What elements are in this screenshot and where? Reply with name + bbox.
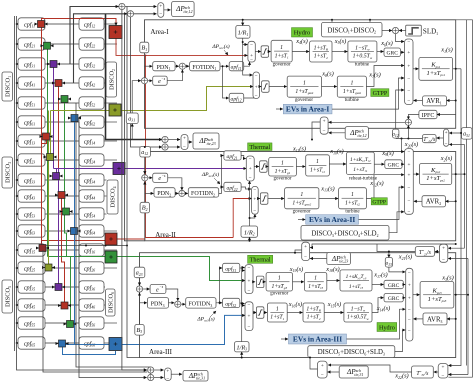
svg-text:governor: governor bbox=[293, 209, 311, 214]
svg-text:1: 1 bbox=[281, 161, 284, 167]
wire gov to hydro comp bbox=[292, 51, 309, 53]
wire row 1 mid bbox=[45, 23, 79, 25]
svg-text:−: − bbox=[249, 175, 252, 181]
wire apf11 to hydro bar bbox=[244, 62, 250, 66]
cpf55 box bbox=[18, 317, 45, 329]
wire ACE2 to delay bbox=[148, 177, 152, 179]
wire hgov3 to comp3 bbox=[287, 312, 302, 314]
Kps1 box bbox=[419, 57, 453, 80]
wire a31 from corridor bbox=[131, 124, 133, 140]
dPtie23 sch box bbox=[193, 133, 219, 149]
svg-text:−: − bbox=[183, 144, 186, 150]
svg-text:governor: governor bbox=[295, 98, 313, 103]
wire apf12 to gtpp bar bbox=[244, 97, 257, 100]
wire row 14 right stub bbox=[104, 267, 117, 269]
svg-text:+: + bbox=[248, 279, 251, 285]
thermal governor box II bbox=[269, 157, 297, 176]
svg-text:Area-I: Area-I bbox=[150, 28, 169, 36]
wire AVR1 input bbox=[447, 100, 456, 102]
red wire v3 bbox=[42, 140, 47, 144]
wire deadband to gtpp2 gov bbox=[268, 198, 284, 200]
cpf15 box bbox=[18, 244, 45, 256]
wire row 6 mid bbox=[45, 121, 79, 123]
wire IPFC to mix bbox=[408, 115, 419, 120]
svg-text:1: 1 bbox=[316, 159, 319, 165]
red wire top bus bbox=[42, 19, 117, 26]
deadband hydro I bbox=[261, 46, 269, 58]
PDN1 box bbox=[153, 62, 175, 71]
blue wire bus bbox=[63, 315, 246, 344]
a12 box left bbox=[140, 147, 151, 158]
svg-text:−: − bbox=[166, 376, 169, 382]
cpf52 box bbox=[79, 97, 104, 109]
cpf13 box bbox=[18, 135, 45, 147]
wire 1/R2 to gtpp2 bar bbox=[250, 214, 255, 218]
wire GRC II to main bar bbox=[402, 163, 404, 165]
wire to PDN1 bbox=[145, 65, 153, 67]
Kps2 box bbox=[420, 164, 452, 185]
wire T12 out bbox=[396, 138, 423, 140]
svg-text:x16(s): x16(s) bbox=[288, 301, 302, 308]
svg-text:Area-II: Area-II bbox=[155, 231, 176, 239]
purple wire v2 bbox=[56, 169, 58, 180]
svg-text:1+sT2: 1+sT2 bbox=[314, 54, 328, 60]
wire row 13 mid bbox=[45, 249, 79, 251]
hydro compensator box III bbox=[303, 303, 324, 322]
wire x20 to area II bar bbox=[402, 139, 405, 152]
wire GRC IIIa to main bar bbox=[403, 284, 405, 286]
wire EV II to main bar bbox=[359, 187, 405, 219]
corridor block I right bbox=[320, 117, 328, 134]
cpf11 box bbox=[18, 18, 45, 30]
wire thermal3 bar to deadband bbox=[253, 281, 255, 283]
cpf66 box bbox=[79, 337, 104, 349]
GTPP label I bbox=[371, 89, 389, 97]
dPtie23 sch box right bbox=[327, 253, 351, 265]
wire B3 to ACE3 bbox=[139, 293, 141, 325]
wire 1/R1 to hydro bar bbox=[243, 38, 248, 44]
cpf21 box bbox=[18, 38, 45, 50]
wire row 15 right stub bbox=[104, 286, 105, 288]
dPtie12 sch box bbox=[172, 2, 195, 17]
wire df3 to 1/R3 bbox=[241, 352, 243, 358]
reheat turbine box III bbox=[340, 270, 372, 291]
wire x1 to tie12 sum bbox=[449, 69, 461, 133]
wire FOTIDN1 out bbox=[220, 66, 229, 98]
svg-text:−: − bbox=[250, 57, 253, 63]
wire sum2 to FOTIDN1 bbox=[186, 65, 189, 67]
wire x2 vertical bbox=[464, 145, 466, 249]
wire row 9 left stub bbox=[16, 179, 18, 181]
svg-text:1: 1 bbox=[314, 276, 317, 282]
wire thermal bar to deadband bbox=[254, 166, 259, 168]
junction square row 17 bbox=[67, 321, 74, 328]
svg-text:DISCO3: DISCO3 bbox=[4, 162, 11, 183]
svg-text:Thermal: Thermal bbox=[250, 257, 271, 264]
wire delay to sum2 I bbox=[167, 70, 182, 81]
wire row 1 left stub bbox=[16, 23, 18, 25]
cpf46 box bbox=[79, 299, 104, 311]
wire 1/R1 to gtpp bar bbox=[243, 42, 253, 75]
wire FOTIDN3 to apf32 bbox=[220, 302, 223, 304]
cpf32 box bbox=[79, 58, 104, 70]
apf21 box bbox=[224, 151, 241, 160]
cpf45 box bbox=[18, 299, 45, 311]
svg-text:DISCO5: DISCO5 bbox=[4, 286, 11, 307]
EVs in Area-I label bbox=[276, 108, 283, 110]
wire delay to sum2 III bbox=[166, 289, 178, 301]
deadband thermal III bbox=[256, 276, 264, 288]
wire row 16 mid bbox=[45, 304, 79, 306]
cpf22 box bbox=[79, 38, 104, 50]
svg-text:+: + bbox=[249, 166, 252, 172]
green wire bus bbox=[48, 257, 246, 281]
wire df1 to 1/R1 bbox=[242, 20, 244, 26]
svg-text:−: − bbox=[407, 88, 410, 94]
svg-text:x1(s): x1(s) bbox=[440, 47, 453, 54]
sum circle bottom b bbox=[148, 374, 154, 380]
FOTIDN1 box bbox=[190, 62, 220, 71]
wire row 13 left stub bbox=[16, 249, 18, 251]
sum block tie23 sch bbox=[181, 135, 188, 150]
apf11 box bbox=[229, 62, 244, 71]
svg-text:−: − bbox=[253, 208, 256, 214]
gtpp governor box II bbox=[285, 188, 319, 209]
GTPP label II bbox=[371, 198, 387, 205]
wire row 17 left stub bbox=[16, 322, 18, 324]
svg-text:+: + bbox=[442, 245, 445, 251]
B2 box bbox=[140, 202, 149, 213]
1/R2 box bbox=[241, 226, 258, 237]
wire comp3 to turbine3 bbox=[324, 312, 343, 314]
wire row 9 mid bbox=[45, 179, 79, 181]
wire row 5 right stub bbox=[104, 102, 117, 104]
wire row 17 mid bbox=[45, 322, 79, 324]
green wire v4 bbox=[70, 257, 72, 321]
wire row 8 mid bbox=[45, 159, 79, 161]
wire comp to turbine bbox=[332, 51, 347, 53]
junction square row 7 bbox=[43, 133, 50, 140]
wire a31 top bbox=[466, 20, 468, 128]
AVR3 box bbox=[423, 313, 447, 325]
wire SLD to sum bbox=[399, 30, 406, 32]
junction square row 5 bbox=[61, 96, 68, 103]
hydro governor box III bbox=[267, 303, 287, 322]
svg-text:−: − bbox=[159, 11, 162, 17]
svg-text:x19(s): x19(s) bbox=[289, 266, 303, 273]
red wire v2 bbox=[58, 87, 60, 241]
svg-text:x22(s): x22(s) bbox=[394, 373, 408, 380]
wire reheat to GRC II bbox=[374, 163, 384, 165]
gtpp turbine box I bbox=[337, 76, 366, 97]
thermal III sum bar bbox=[245, 265, 253, 294]
EVs in Area-II label bbox=[298, 219, 305, 221]
svg-text:EVs in Area-II: EVs in Area-II bbox=[309, 215, 355, 224]
svg-text:−: − bbox=[408, 150, 411, 156]
AVR2 box bbox=[422, 196, 446, 207]
wire gtpp turbine to main bar bbox=[366, 66, 404, 87]
dPtie12 sch box right bbox=[345, 127, 368, 140]
wire corridor II b to block bbox=[168, 146, 180, 148]
wire reheat3 to GRC III a bbox=[372, 284, 384, 286]
wire FOTIDN1 to apf11 bbox=[223, 65, 229, 67]
wire row 8 right stub bbox=[104, 159, 117, 161]
svg-text:GRC: GRC bbox=[386, 51, 398, 57]
svg-text:PDN3: PDN3 bbox=[151, 302, 165, 308]
wire dPtie12sch to corridor block bbox=[329, 132, 346, 134]
wire apf32 to hydro3 bar bbox=[240, 303, 245, 306]
wire bottom a-b link bbox=[150, 373, 152, 374]
cpf16 box bbox=[79, 244, 104, 256]
GRC IIIb box bbox=[384, 294, 403, 302]
red wire left loop bbox=[146, 55, 234, 237]
junction square row 14 bbox=[45, 264, 52, 271]
SLD1 icon bbox=[406, 25, 422, 36]
wire x2 out bbox=[452, 173, 465, 175]
svg-text:−: − bbox=[408, 307, 411, 313]
wire row 2 left stub bbox=[16, 43, 18, 45]
svg-text:+: + bbox=[321, 363, 324, 369]
svg-text:+: + bbox=[442, 364, 445, 370]
junction square row 8 bbox=[47, 154, 54, 161]
green wire v1 bbox=[47, 49, 49, 257]
wire row 14 mid bbox=[45, 267, 79, 269]
olive wire v1 bbox=[50, 111, 52, 154]
hydro III sum bar bbox=[245, 302, 253, 331]
wire apf22 to gtpp2 bar bbox=[241, 187, 251, 189]
junction square row 18 bbox=[59, 340, 66, 347]
wire gov to t1 block bbox=[296, 166, 305, 168]
wire delay to sum2 II bbox=[168, 178, 182, 190]
junction square row 9 bbox=[53, 173, 60, 180]
DISCO bus vertical wire 2 bbox=[16, 16, 18, 343]
wire row 7 mid bbox=[45, 140, 79, 142]
svg-text:−: − bbox=[248, 302, 251, 308]
DISCO1 label bbox=[2, 72, 13, 101]
svg-text:GTPP: GTPP bbox=[373, 91, 388, 97]
wire row 3 right stub bbox=[104, 63, 106, 65]
svg-text:AVR1: AVR1 bbox=[426, 98, 441, 105]
wire EV I to main bar bbox=[332, 78, 404, 109]
wire border to DISCO12 a bbox=[331, 20, 333, 23]
svg-text:−: − bbox=[408, 185, 411, 191]
1/R1 box bbox=[236, 26, 250, 39]
thermal II sum bar bbox=[246, 156, 254, 181]
svg-text:−: − bbox=[248, 265, 251, 271]
svg-text:DISCO4: DISCO4 bbox=[110, 186, 117, 207]
svg-text:−s: −s bbox=[159, 285, 163, 289]
main sum bar area I bbox=[405, 39, 413, 105]
1/R3 box bbox=[235, 342, 250, 352]
red wire v4 bbox=[61, 199, 63, 241]
wire lower panel junction line bbox=[47, 245, 128, 247]
big junction square 3 bbox=[113, 163, 125, 175]
cpf35 box bbox=[18, 281, 45, 293]
svg-text:−: − bbox=[248, 324, 251, 330]
svg-text:−: − bbox=[255, 93, 258, 99]
wire row 17 right stub bbox=[104, 322, 117, 324]
olive wire v2 bbox=[48, 111, 50, 265]
junction square row 6 bbox=[71, 115, 78, 122]
cpf62 box bbox=[79, 116, 104, 128]
big junction square 2 bbox=[109, 104, 121, 116]
wire PDN2 to sum2 II bbox=[175, 192, 178, 194]
wire row 10 right stub bbox=[104, 195, 107, 197]
B1 box bbox=[140, 42, 149, 53]
T23/s box bbox=[415, 247, 434, 257]
hydro turbine box III bbox=[344, 303, 372, 322]
wire tie23 sum to T23 bbox=[435, 251, 439, 253]
big junction square 1 bbox=[109, 26, 122, 39]
wire df2 to 1/R2 bbox=[249, 237, 251, 241]
sum circle pre FOTIDN3 bbox=[175, 301, 181, 307]
svg-text:Area-III: Area-III bbox=[149, 348, 173, 356]
wire bottom b to block bbox=[154, 377, 164, 379]
wire deadband to gtpp gov bbox=[269, 86, 287, 88]
wire row 4 right stub bbox=[104, 82, 106, 84]
wire to PDN2 bbox=[145, 192, 154, 194]
wire bottom chain 3 bbox=[17, 343, 147, 370]
svg-text:+: + bbox=[445, 130, 448, 136]
wire gtpp gov to turbine bbox=[322, 86, 337, 88]
wire row 12 right stub bbox=[104, 230, 117, 232]
GRC II box bbox=[385, 160, 402, 169]
svg-text:−: − bbox=[249, 156, 252, 162]
apf22 box bbox=[224, 182, 241, 191]
svg-text:−: − bbox=[248, 288, 251, 294]
svg-text:+: + bbox=[408, 162, 411, 168]
sum block tie12 bbox=[443, 129, 448, 146]
sum circle TL1 bbox=[119, 3, 125, 9]
wire PDN3 to sum2 III bbox=[169, 302, 175, 304]
svg-text:x4(s): x4(s) bbox=[295, 38, 308, 45]
DISCO1+DISCO2 box bbox=[322, 22, 383, 37]
svg-text:x17(s): x17(s) bbox=[373, 272, 387, 279]
svg-text:x7(s): x7(s) bbox=[368, 72, 381, 79]
wire FOTIDN2 out bbox=[219, 156, 224, 194]
wire x2 to tie12 sum bbox=[449, 144, 464, 146]
svg-text:turbine: turbine bbox=[355, 63, 370, 68]
main sum bar area III bbox=[406, 268, 413, 341]
junction square row 16 bbox=[61, 302, 68, 309]
wire DISCO34 to main bar II bbox=[389, 212, 404, 233]
svg-text:governor: governor bbox=[273, 63, 291, 68]
svg-text:+: + bbox=[183, 136, 186, 142]
wire AVR1 to main bar bbox=[414, 100, 423, 102]
wire row 5 left stub bbox=[16, 102, 18, 104]
thermal governor box III bbox=[266, 273, 292, 292]
blue wire v1 bbox=[74, 122, 76, 345]
svg-text:1+sT1: 1+sT1 bbox=[275, 53, 289, 59]
svg-text:governor: governor bbox=[273, 177, 291, 182]
FOTIDN3 box bbox=[186, 298, 216, 309]
svg-text:governor: governor bbox=[270, 292, 288, 297]
svg-text:1: 1 bbox=[278, 276, 281, 282]
Hydro label I bbox=[292, 28, 313, 37]
wire row 18 left stub bbox=[16, 342, 18, 344]
purple wire bus bbox=[54, 168, 247, 170]
cpf43 box bbox=[18, 190, 45, 202]
wire row 10 left stub bbox=[16, 195, 18, 197]
wire x2 to tie23 sum bbox=[448, 247, 464, 249]
wire row 4 left stub bbox=[16, 82, 18, 84]
red wire v6 bbox=[62, 241, 65, 303]
svg-text:FOTIDN2: FOTIDN2 bbox=[191, 191, 215, 197]
apf31 box bbox=[223, 263, 240, 272]
svg-text:SLD1: SLD1 bbox=[423, 28, 438, 36]
Thermal label III bbox=[248, 255, 273, 263]
wire row 3 mid bbox=[45, 63, 79, 65]
wire bottom a to block bbox=[154, 369, 164, 371]
wire T12 to mix bbox=[407, 125, 409, 138]
wire EV III to main bar bbox=[347, 309, 406, 339]
wire main bar III to Kps3 bbox=[413, 294, 420, 296]
wire apf21 to thermal bar bbox=[241, 156, 246, 159]
svg-text:−: − bbox=[408, 317, 411, 323]
cpf44 box bbox=[79, 190, 104, 202]
wire row 7 right stub bbox=[104, 140, 117, 142]
PDN3 box bbox=[147, 298, 168, 309]
a31 box right bbox=[462, 128, 473, 140]
wire row 14 left stub bbox=[16, 267, 18, 269]
thick wire to corridor II bbox=[106, 14, 162, 140]
delay e-s box area II bbox=[153, 173, 168, 182]
wire row 4 mid bbox=[45, 82, 79, 84]
wire hydro3 bar to deadband bbox=[253, 312, 256, 314]
wire tie23 vertical to corridor bbox=[131, 17, 162, 147]
hydro compensator box bbox=[310, 41, 332, 62]
wire sum2 to FOTIDN2 bbox=[186, 192, 188, 194]
wire AVR2 to main bar bbox=[414, 200, 422, 202]
wire row 18 right stub bbox=[104, 342, 117, 344]
cpf14 box bbox=[79, 135, 104, 147]
svg-text:x21(s): x21(s) bbox=[398, 254, 412, 261]
GTPP I sum bar bbox=[253, 72, 260, 99]
wire to dPtie23 sch box bbox=[188, 141, 192, 143]
wire IPFC input bbox=[437, 114, 456, 116]
svg-text:Hydro: Hydro bbox=[379, 324, 395, 331]
thermal t1 box II bbox=[306, 155, 330, 176]
svg-text:IPFC: IPFC bbox=[422, 113, 435, 119]
svg-text:+: + bbox=[253, 196, 256, 202]
wire TL1 to sumblock bbox=[125, 6, 156, 8]
hydro I sum bar bbox=[248, 41, 255, 62]
svg-text:PDN1: PDN1 bbox=[157, 65, 171, 71]
svg-text:1: 1 bbox=[276, 306, 279, 312]
wire x3 vertical bbox=[467, 259, 469, 375]
wire gtpp2 bar to deadband bbox=[258, 198, 260, 200]
a23 box left bbox=[134, 267, 145, 278]
wire sumblock to T12 bbox=[437, 137, 444, 139]
wire B2 to ACE2 bbox=[144, 182, 146, 203]
DISCO5+DISCO6+SLD3 box bbox=[308, 346, 395, 358]
wire mix to corridor block bbox=[329, 121, 406, 123]
wire row 8 left stub bbox=[16, 159, 18, 161]
wire main bar II to Kps2 bbox=[413, 173, 419, 175]
sum circle load I bbox=[392, 27, 398, 33]
red wire area1 feed bbox=[116, 39, 247, 56]
wire bottom chain 0 bbox=[43, 250, 147, 372]
svg-text:+: + bbox=[248, 313, 251, 319]
sum block tie12 sch bbox=[158, 3, 164, 18]
svg-text:−: − bbox=[407, 39, 410, 45]
DISCO5 label bbox=[2, 280, 13, 313]
wire x3 to tie23 sum bbox=[448, 258, 468, 260]
sum circle corridor II b bbox=[162, 144, 168, 150]
wire corridor block II input bbox=[310, 244, 456, 248]
svg-text:DISCO5+DISCO6+SLD3: DISCO5+DISCO6+SLD3 bbox=[318, 349, 385, 356]
sum circle ACE3 bbox=[136, 286, 142, 292]
